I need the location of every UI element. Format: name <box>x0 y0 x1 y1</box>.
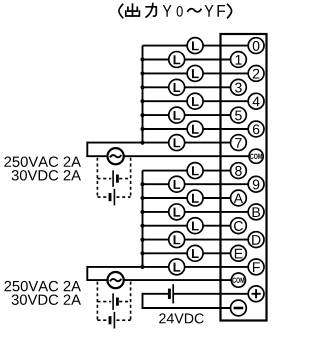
wire row D (load to terminal) <box>185 239 249 241</box>
label 30VDC 2A (group 1) <box>12 170 81 180</box>
terminal 1 <box>231 52 247 68</box>
battery (DC alternative, polarity 2) group 2 <box>110 312 114 329</box>
wire row E (bus to load) <box>143 252 188 254</box>
junction dot row 3 <box>140 85 144 89</box>
terminal COM (k=17) <box>231 273 245 287</box>
label 250VAC 2A (group 1) <box>4 156 81 166</box>
junction dot row C <box>140 224 144 228</box>
wire row 4 (bus to load) <box>143 100 188 102</box>
dashed DC-alternative box group 2 <box>97 282 130 321</box>
wire COM row group 1 (left) <box>86 155 107 157</box>
wire row 7 (bus to load) <box>87 142 169 144</box>
wire row F (bus to load) <box>87 266 169 268</box>
load L row 6 <box>187 121 203 137</box>
wire row A (load to terminal) <box>203 197 231 199</box>
label 250VAC 2A (group 2) <box>4 281 81 291</box>
wire row E (load to terminal) <box>203 252 231 254</box>
junction dot row 1 <box>140 57 144 61</box>
junction dot row A <box>140 196 144 200</box>
output terminal block outline <box>221 34 267 321</box>
wire row 6 (bus to load) <box>143 128 188 130</box>
load L row A <box>187 190 203 206</box>
junction dot row 4 <box>140 99 144 103</box>
AC source G1 250VAC <box>108 148 124 164</box>
load L row 0 <box>187 38 203 54</box>
wire row A (bus to load) <box>143 197 188 199</box>
load L row D <box>169 232 185 248</box>
load L row 3 <box>169 79 185 95</box>
terminal 5 <box>231 107 247 123</box>
wire − row (to − terminal) <box>142 307 231 309</box>
terminal − <box>231 300 247 316</box>
load L row 1 <box>169 52 185 68</box>
wire row 0 (load to terminal) <box>203 45 248 47</box>
label 30VDC 2A (group 2) <box>12 294 81 304</box>
terminal 6 <box>248 121 264 137</box>
terminal B <box>248 204 264 220</box>
wire row 8 (load to terminal) <box>203 170 231 172</box>
battery (DC alternative, polarity 1) group 2 <box>113 293 117 310</box>
terminal E <box>231 245 247 261</box>
wire row C (load to terminal) <box>203 225 231 227</box>
load L row 5 <box>169 107 185 123</box>
wire row 2 (load to terminal) <box>203 72 248 74</box>
wire row B (load to terminal) <box>185 211 249 213</box>
junction dot row F <box>140 265 144 269</box>
junction dot row D <box>140 238 144 242</box>
label 24VDC <box>159 313 204 323</box>
left bus group 2 (vertical wire) <box>142 171 144 267</box>
junction dot row 7 <box>140 141 144 145</box>
load L row 9 <box>169 176 185 192</box>
junction dot row 5 <box>140 113 144 117</box>
wire row C (bus to load) <box>143 225 188 227</box>
terminal 7 <box>231 135 247 151</box>
terminal A <box>231 190 247 206</box>
wire row 0 (bus to load) <box>143 45 188 47</box>
wire + row (right segment to + terminal) <box>173 293 248 295</box>
AC source G2 250VAC <box>108 272 124 288</box>
wire hook down group 1 <box>86 142 88 157</box>
terminal 4 <box>248 93 264 109</box>
junction dot row 6 <box>140 127 144 131</box>
wire battery left drop <box>142 293 144 308</box>
load L row 4 <box>187 93 203 109</box>
wire row 1 (bus to load) <box>143 59 169 61</box>
wire COM row group 2 (left) <box>86 279 107 281</box>
wire + row (left segment) <box>143 293 170 295</box>
junction dot row B <box>140 210 144 214</box>
wire row 4 (load to terminal) <box>203 100 248 102</box>
wire row F (load to terminal) <box>185 266 249 268</box>
wire row 9 (bus to load) <box>143 183 169 185</box>
terminal C <box>231 218 247 234</box>
battery 24VDC plates <box>169 284 173 303</box>
terminal + <box>248 286 264 302</box>
battery (DC alternative, polarity 2) group 1 <box>110 189 114 206</box>
load L row F <box>169 259 185 275</box>
terminal D <box>248 232 264 248</box>
load L row 7 <box>169 135 185 151</box>
wire row 3 (bus to load) <box>143 86 169 88</box>
wire row 5 (load to terminal) <box>185 114 231 116</box>
wire row 5 (bus to load) <box>143 114 169 116</box>
wire COM row group 2 (right, to COM terminal) <box>124 279 232 281</box>
terminal COM (k=8) <box>249 149 263 163</box>
wire row B (bus to load) <box>143 211 169 213</box>
dashed DC-alternative box group 1 <box>97 158 130 197</box>
load L row B <box>169 204 185 220</box>
wire row 7 (load to terminal) <box>185 142 231 144</box>
load L row C <box>187 218 203 234</box>
wire COM row group 1 (right, to COM terminal) <box>124 155 249 157</box>
junction dot row 9 <box>140 182 144 186</box>
terminal 0 <box>248 38 264 54</box>
terminal 9 <box>248 176 264 192</box>
wire row 2 (bus to load) <box>143 72 188 74</box>
wire row 6 (load to terminal) <box>203 128 248 130</box>
wire row 8 (bus to load) <box>143 170 188 172</box>
wire row D (bus to load) <box>143 239 169 241</box>
terminal 8 <box>231 163 247 179</box>
terminal F <box>248 259 264 275</box>
left bus group 1 (vertical wire) <box>142 46 144 143</box>
terminal 2 <box>248 66 264 82</box>
junction dot row E <box>140 251 144 255</box>
wire row 3 (load to terminal) <box>185 86 231 88</box>
wire row 1 (load to terminal) <box>185 59 231 61</box>
battery (DC alternative, polarity 1) group 1 <box>113 170 117 187</box>
load L row 2 <box>187 65 203 81</box>
junction dot row 2 <box>140 71 144 75</box>
load L row 8 <box>187 163 203 179</box>
terminal 3 <box>231 79 247 95</box>
wire row 9 (load to terminal) <box>185 183 249 185</box>
wire hook down group 2 <box>86 266 88 280</box>
title （出力Y0～YF） <box>119 4 232 18</box>
load L row E <box>187 245 203 261</box>
